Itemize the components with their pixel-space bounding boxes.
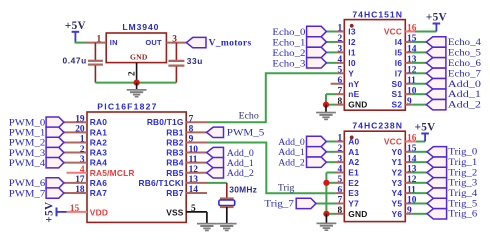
U4 pin 14 (Y1) number: [407, 154, 417, 164]
U4 pin 9 stub+wire to Trig_6 flag: [405, 213, 427, 215]
U4 pin name GND: [348, 209, 367, 219]
U3 name label 74HC151N: [352, 9, 403, 19]
U3 pin 6 (nY) unconnected stub: [331, 83, 345, 85]
svg-text:Add_2: Add_2: [278, 158, 305, 169]
net label Add_1 (U2 side): [227, 158, 254, 169]
U2 pin name RA3: [90, 148, 107, 158]
svg-text:E2: E2: [348, 178, 359, 188]
svg-text:GND: GND: [130, 53, 148, 62]
svg-text:I0: I0: [348, 58, 356, 68]
svg-text:nY: nY: [348, 79, 359, 89]
U3 pin 11 stub+wire to Add_0 flag: [405, 83, 426, 85]
svg-text:nE: nE: [348, 89, 359, 99]
svg-text:I1: I1: [348, 47, 356, 57]
U4 pin 2 (A1) number: [338, 144, 343, 154]
input terminal flag Echo_3: [307, 58, 327, 68]
net label PWM_2: [9, 138, 45, 149]
U4 pin name E3: [348, 188, 359, 198]
svg-text:VDD: VDD: [90, 208, 108, 218]
svg-text:Echo_7: Echo_7: [448, 68, 481, 79]
U4 pin 4 (E1) number: [338, 165, 343, 175]
svg-text:RA2: RA2: [90, 137, 107, 147]
output terminal flag Trig_2: [427, 167, 447, 177]
input terminal flag Add_1 (U4 side): [307, 147, 327, 157]
capacitor C1 0.47u: [88, 43, 103, 83]
U3 pin name I4: [395, 37, 403, 47]
output terminal flag Add_2 at U2: [207, 168, 224, 178]
svg-text:7: 7: [189, 114, 194, 124]
svg-text:Y5: Y5: [392, 198, 403, 208]
U3 pin 11 (S0) number: [407, 76, 416, 86]
svg-text:2: 2: [127, 71, 137, 76]
U4 pin 13 (Y2) number: [407, 165, 417, 175]
net label Trig_7: [264, 199, 294, 210]
U2 pin name RB0/T1G: [147, 117, 184, 127]
net label Add_0 (U4 side): [278, 137, 305, 148]
U3 pin 6 (nY) number: [338, 76, 343, 86]
output terminal flag Echo_7: [426, 68, 446, 78]
svg-text:+5V: +5V: [415, 122, 436, 134]
U1 pin 1 number: [97, 35, 102, 45]
svg-text:RA1: RA1: [90, 127, 107, 137]
U4 pin 6 (E3) number: [338, 185, 343, 195]
U3 pin 5 (Y) stub: [337, 72, 344, 74]
svg-text:PWM_5: PWM_5: [227, 128, 265, 139]
U1 pin name IN: [110, 38, 118, 47]
U2 pin name RB3: [166, 148, 183, 158]
input terminal flag PWM_4: [46, 157, 64, 167]
U2 pin 18 (RA7) stub + number: [64, 185, 87, 195]
+5V power symbol P1: [65, 20, 86, 43]
U2 pin name RA1: [90, 127, 107, 137]
U4 pin 10 (Y5) number: [407, 196, 417, 206]
net label Add_2 (U4 side): [278, 158, 305, 169]
U4 pin 15 stub+wire to Trig_0 flag: [405, 151, 427, 153]
U2 pin name RA6: [90, 178, 107, 188]
output terminal flag Echo_6: [426, 58, 446, 68]
U4 pin 6 (E3) stub on Trig net: [336, 192, 345, 194]
U2 pin name RA7: [90, 188, 107, 198]
svg-text:Add_2: Add_2: [227, 168, 254, 179]
svg-text:13: 13: [189, 175, 199, 185]
net label Echo_4: [448, 37, 481, 48]
net label PWM_6: [9, 178, 45, 189]
U2 pin 1 (RA2) stub + number: [64, 135, 87, 145]
svg-text:VSS: VSS: [166, 208, 184, 218]
U3 pin name nE: [348, 89, 359, 99]
U3 pin 8 (GND) wire: [326, 104, 344, 106]
net label Add_0: [448, 79, 481, 90]
U3 pin 14 stub+wire to Echo_5 flag: [405, 51, 426, 53]
input terminal flag Echo_0: [307, 26, 327, 36]
U2 pin 17 (RA6) stub + number: [64, 175, 87, 185]
net label Add_1 (U4 side): [278, 147, 305, 158]
svg-text:0.47u: 0.47u: [62, 55, 86, 65]
svg-text:RB4: RB4: [166, 158, 183, 168]
U2 pin 4 (RA5/MCLR) stub + number: [67, 165, 88, 175]
U3 pin 2 stub+wire from Echo_1 flag: [326, 41, 344, 43]
U2 pin 9 (RB2) stub + number: [186, 135, 207, 145]
U4 pin name Y0: [392, 147, 403, 157]
wire Echo net from U2 pin7: [207, 73, 337, 122]
U3 pin 15 (I4) number: [407, 34, 417, 44]
svg-text:17: 17: [75, 175, 85, 185]
U3 pin 7 (nE) wire to ground: [326, 94, 344, 104]
U3 pin name nY: [348, 79, 359, 89]
U4 pin 7 (Y7) number: [338, 196, 343, 206]
net label Add_2 (U2 side): [227, 168, 254, 179]
U4 pin name Y6: [392, 209, 403, 219]
U3 pin 4 (I0) number: [338, 55, 343, 65]
output terminal flag Add_2: [426, 99, 446, 109]
input terminal flag Add_0 (U4 side): [307, 136, 327, 146]
U3 pin 8 (GND) number: [338, 97, 343, 107]
svg-text:12: 12: [189, 165, 199, 175]
U4 pin name Y5: [392, 198, 403, 208]
svg-text:S1: S1: [392, 89, 403, 99]
svg-text:Echo: Echo: [239, 110, 259, 121]
net label Trig_0: [448, 147, 477, 158]
net label PWM_4: [9, 158, 45, 169]
input terminal flag PWM_3: [46, 147, 64, 157]
input terminal flag PWM_6: [46, 178, 64, 188]
svg-text:20: 20: [75, 125, 85, 135]
C2 value 33u: [187, 56, 203, 66]
U2 pin 19 (RA0) stub + number: [64, 114, 87, 124]
decoder U4 74HC238N body: [344, 131, 405, 221]
U2 pin 13 (RB6/T1CKI) stub + number: [186, 175, 207, 185]
net label Trig_4: [448, 188, 477, 199]
U3 pin name I2: [348, 37, 356, 47]
U4 pin 11 (Y4) number: [407, 185, 416, 195]
output terminal flag Trig_3: [427, 178, 447, 188]
svg-text:33u: 33u: [187, 56, 203, 66]
resonator X1 30MHz: [219, 183, 235, 207]
svg-text:9: 9: [189, 135, 194, 145]
U3 pin name I6: [395, 58, 403, 68]
net label Echo_0: [272, 27, 305, 38]
svg-text:4: 4: [80, 165, 85, 175]
U2 pin 2 (RA3) stub + number: [64, 145, 87, 155]
U3 pin 12 (I7) number: [407, 66, 417, 76]
U4 pin 13 stub+wire to Trig_2 flag: [405, 171, 427, 173]
svg-text:RA6: RA6: [90, 178, 107, 188]
output terminal flag Add_0 at U2: [207, 147, 224, 157]
U4 pin name A0: [348, 137, 359, 147]
svg-text:PWM_4: PWM_4: [9, 158, 45, 169]
U4 pin 12 stub+wire to Trig_3 flag: [405, 182, 427, 184]
svg-text:19: 19: [75, 114, 85, 124]
junction dot under U1 pin2: [134, 80, 140, 86]
svg-text:18: 18: [75, 185, 85, 195]
U3 pin 1 (I3) number: [338, 24, 343, 34]
input terminal flag PWM_0: [46, 117, 64, 127]
U4 pin name A1: [348, 147, 359, 157]
ground symbol under U4: [317, 214, 337, 231]
svg-text:8: 8: [189, 125, 194, 135]
net label Echo: [239, 110, 259, 121]
U3 pin name S0: [392, 79, 403, 89]
net label PWM_3: [9, 148, 45, 159]
U4 pin name Y3: [392, 178, 403, 188]
U3 pin 14 (I5) number: [407, 45, 417, 55]
svg-text:Echo_2: Echo_2: [272, 48, 305, 59]
svg-text:PWM_7: PWM_7: [9, 188, 45, 199]
svg-text:PIC16F1827: PIC16F1827: [97, 102, 157, 112]
U1 pin name OUT: [145, 38, 162, 47]
svg-text:Echo_3: Echo_3: [272, 58, 305, 69]
U3 pin 10 stub+wire to Add_1 flag: [405, 93, 426, 95]
svg-text:15: 15: [70, 204, 80, 214]
U3 pin 1 stub+wire from Echo_0 flag: [326, 31, 344, 33]
output terminal flag Trig_0: [427, 147, 447, 157]
U2 pin 12 (RB5) stub + number: [186, 165, 207, 175]
U3 pin 7 (nE) number: [338, 86, 343, 96]
net label PWM_5: [227, 128, 265, 139]
U4 pin1 marker dot: [350, 136, 354, 140]
svg-text:I2: I2: [348, 37, 356, 47]
U4 name label 74HC238N: [352, 120, 403, 130]
U3 pin 3 stub+wire from Echo_2 flag: [326, 51, 344, 53]
U3 pin 3 (I1) number: [338, 45, 343, 55]
U2 pin 14 (RB7) stub + number: [186, 185, 207, 195]
U3 pin name S1: [392, 89, 403, 99]
net label Trig_2: [448, 167, 477, 178]
U2 pin 11 (RB4) stub + number: [186, 155, 207, 165]
U4 pin 11 stub+wire to Trig_4 flag: [405, 192, 427, 194]
junction dot at U3 ground: [323, 102, 329, 108]
U3 pin name I1: [348, 47, 356, 57]
output terminal flag Echo_5: [426, 47, 446, 57]
U3 pin 9 stub+wire to Add_2 flag: [405, 104, 426, 106]
U3 pin 5 (Y) number: [338, 66, 343, 76]
svg-text:OUT: OUT: [145, 38, 162, 47]
U3 pin name S2: [392, 100, 403, 110]
net label PWM_7: [9, 188, 45, 199]
U2 pin name VDD: [90, 208, 108, 218]
svg-text:GND: GND: [348, 100, 367, 110]
U4 pin 12 (Y3) number: [407, 175, 417, 185]
net label Trig_6: [448, 209, 477, 220]
svg-text:E1: E1: [348, 167, 359, 177]
svg-text:30MHz: 30MHz: [229, 184, 257, 194]
svg-text:2: 2: [80, 145, 85, 155]
U1 pin 1 stub: [85, 42, 106, 44]
U3 pin 16 (VCC) number: [407, 24, 417, 34]
svg-text:Add_1: Add_1: [448, 89, 481, 100]
U4 pin 1 (A0) number: [338, 134, 343, 144]
wire +5V to U1 pin1: [75, 42, 86, 44]
svg-text:Y3: Y3: [392, 178, 403, 188]
U3 pin1 marker dot: [350, 24, 354, 28]
output terminal flag PWM_5 at U2 pin8: [207, 127, 224, 137]
U4 pin 5 (E2) number: [338, 175, 343, 185]
output terminal flag Trig_1: [427, 157, 447, 167]
U4 pin name Y2: [392, 167, 403, 177]
U4 pin 8 (GND) wire: [326, 213, 344, 215]
svg-text:RB0/T1G: RB0/T1G: [147, 117, 184, 127]
output terminal flag Trig_6: [427, 209, 447, 219]
svg-text:14: 14: [189, 185, 199, 195]
net label PWM_0: [9, 118, 45, 129]
svg-text:Echo_6: Echo_6: [448, 58, 481, 69]
ground symbol under U3: [316, 105, 336, 121]
U3 pin 2 (I2) number: [338, 34, 343, 44]
capacitor C2 33u: [168, 43, 184, 83]
U4 pin name Y4: [392, 188, 403, 198]
U3 pin 10 (S1) number: [407, 86, 417, 96]
net label Add_2: [448, 100, 481, 111]
svg-text:RB6/T1CKI: RB6/T1CKI: [139, 178, 184, 188]
U4 pin 3 stub+wire from Add_2 flag: [326, 161, 344, 163]
U4 pin 7 (Y7) stub+wire from Trig_7 flag: [316, 202, 344, 204]
junction dot U4 GND: [323, 211, 329, 217]
U4 pin name Y1: [392, 157, 403, 167]
net label Trig: [278, 183, 295, 194]
U2 pin 20 (RA1) stub + number: [64, 125, 87, 135]
U4 pin 2 stub+wire from Add_1 flag: [326, 151, 344, 153]
U2 pin name RA0: [90, 117, 107, 127]
wire U2 pin13 to resonator X1: [207, 182, 227, 184]
svg-text:A1: A1: [348, 147, 359, 157]
input terminal flag Add_2 (U4 side): [307, 157, 327, 167]
U2 pin name RB4: [166, 158, 183, 168]
svg-text:10: 10: [189, 145, 199, 155]
U3 pin 9 (S2) number: [407, 97, 412, 107]
U2 pin name RA2: [90, 137, 107, 147]
svg-text:Trig_6: Trig_6: [448, 209, 477, 220]
U3 pin name VCC: [384, 27, 402, 37]
U4 pin 16 (VCC) red stub and wire to +5V: [405, 141, 425, 143]
U3 pin 12 stub+wire to Echo_7 flag: [405, 72, 426, 74]
output terminal flag Echo_4: [426, 37, 446, 47]
U1 pin name GND: [130, 53, 148, 62]
net label Echo_6: [448, 58, 481, 69]
microcontroller U2 PIC16F1827 body: [87, 112, 186, 222]
U4 pin 15 (Y0) number: [407, 144, 417, 154]
U3 pin name I7: [395, 68, 403, 78]
svg-text:Y1: Y1: [392, 157, 403, 167]
U2 pin name RB5: [166, 168, 183, 178]
U2 name label PIC16F1827: [97, 102, 157, 112]
output terminal flag Add_1 at U2: [207, 157, 224, 167]
wire Trig net from U2 pin9: [207, 142, 336, 193]
svg-text:Trig_7: Trig_7: [264, 199, 294, 210]
multiplexer U3 74HC151N body: [344, 20, 405, 111]
U4 pin name Y7: [348, 198, 359, 208]
svg-text:Echo_0: Echo_0: [272, 27, 305, 38]
svg-text:74HC151N: 74HC151N: [352, 9, 403, 19]
svg-text:Trig: Trig: [278, 183, 295, 194]
svg-text:I5: I5: [395, 47, 403, 57]
voltage regulator U1 LM3940 body: [106, 33, 166, 63]
output terminal flag Add_1: [426, 89, 446, 99]
svg-text:A2: A2: [348, 157, 359, 167]
ground symbol under U1: [127, 83, 147, 98]
svg-text:74HC238N: 74HC238N: [352, 120, 403, 130]
svg-text:+5V: +5V: [65, 20, 86, 32]
svg-text:+5V: +5V: [426, 12, 447, 24]
svg-text:RB7: RB7: [166, 188, 183, 198]
U4 pin name E2: [348, 178, 359, 188]
U2 pin 7 (RB0/T1G) stub + number: [186, 114, 207, 124]
net label Add_0 (U2 side): [227, 148, 254, 159]
net label Trig_3: [448, 178, 477, 189]
U1 pin 3 stub: [166, 42, 186, 44]
svg-text:Add_0: Add_0: [448, 79, 481, 90]
U1 name label LM3940: [122, 22, 159, 32]
svg-text:+5V: +5V: [44, 202, 56, 223]
U4 pin 9 (Y6) number: [407, 206, 412, 216]
U4 pin 5 (E2) wire: [326, 182, 344, 184]
svg-text:RA5/MCLR: RA5/MCLR: [90, 168, 135, 178]
svg-text:V_motors: V_motors: [209, 39, 252, 49]
U2 pin name VSS: [166, 208, 184, 218]
net label PWM_1: [9, 128, 45, 139]
U4 pin 8 (GND) number: [338, 206, 343, 216]
U3 pin 15 stub+wire to Echo_4 flag: [405, 41, 426, 43]
net label Echo_7: [448, 68, 481, 79]
net label Echo_3: [272, 58, 305, 69]
vertical ground rail wire at U4: [325, 172, 327, 213]
U4 pin 10 stub+wire to Trig_5 flag: [405, 202, 427, 204]
+5V power symbol P2 (rotated) at VDD: [44, 202, 67, 223]
svg-text:1: 1: [80, 135, 85, 145]
svg-text:VCC: VCC: [384, 27, 402, 37]
U2 pin 5 (VSS) stub + number: [186, 204, 207, 214]
U4 pin name VCC: [384, 137, 402, 147]
svg-text:S0: S0: [392, 79, 403, 89]
svg-text:Echo_4: Echo_4: [448, 37, 481, 48]
svg-text:Echo_5: Echo_5: [448, 47, 481, 58]
U4 pin 14 stub+wire to Trig_1 flag: [405, 161, 427, 163]
wire ground rail under U1: [95, 82, 176, 84]
svg-text:I7: I7: [395, 68, 403, 78]
U4 pin name A2: [348, 157, 359, 167]
C1 value 0.47u: [62, 55, 86, 65]
svg-text:RA3: RA3: [90, 148, 107, 158]
U2 pin name RB1: [166, 127, 183, 137]
U4 pin 1 stub+wire from Add_0 flag: [326, 141, 344, 143]
U4 pin 16 (VCC) number: [407, 134, 417, 144]
svg-text:RB1: RB1: [166, 127, 183, 137]
svg-text:Y0: Y0: [392, 147, 403, 157]
output terminal V_motors flag: [186, 37, 206, 47]
input terminal flag PWM_7: [46, 188, 64, 198]
U2 pin name RA4: [90, 158, 107, 168]
svg-text:A0: A0: [348, 137, 359, 147]
svg-text:Y6: Y6: [392, 209, 403, 219]
svg-text:Echo_1: Echo_1: [272, 37, 305, 48]
U2 pin name RB2: [166, 137, 183, 147]
U2 pin 8 (RB1) stub + number: [186, 125, 207, 135]
ground symbol under X1: [217, 207, 237, 231]
output terminal flag Add_0: [426, 79, 446, 89]
U2 pin 3 (RA4) stub + number: [64, 155, 87, 165]
U3 pin 4 stub+wire from Echo_3 flag: [326, 62, 344, 64]
svg-text:I6: I6: [395, 58, 403, 68]
U4 pin 3 (A2) number: [338, 154, 343, 164]
U4 pin name E1: [348, 167, 359, 177]
input terminal flag Echo_1: [307, 37, 327, 47]
svg-text:LM3940: LM3940: [122, 22, 159, 32]
svg-text:S2: S2: [392, 100, 403, 110]
svg-text:E3: E3: [348, 188, 359, 198]
U3 pin name I0: [348, 58, 356, 68]
svg-text:11: 11: [189, 155, 198, 165]
svg-text:Y7: Y7: [348, 198, 359, 208]
U3 pin name I5: [395, 47, 403, 57]
